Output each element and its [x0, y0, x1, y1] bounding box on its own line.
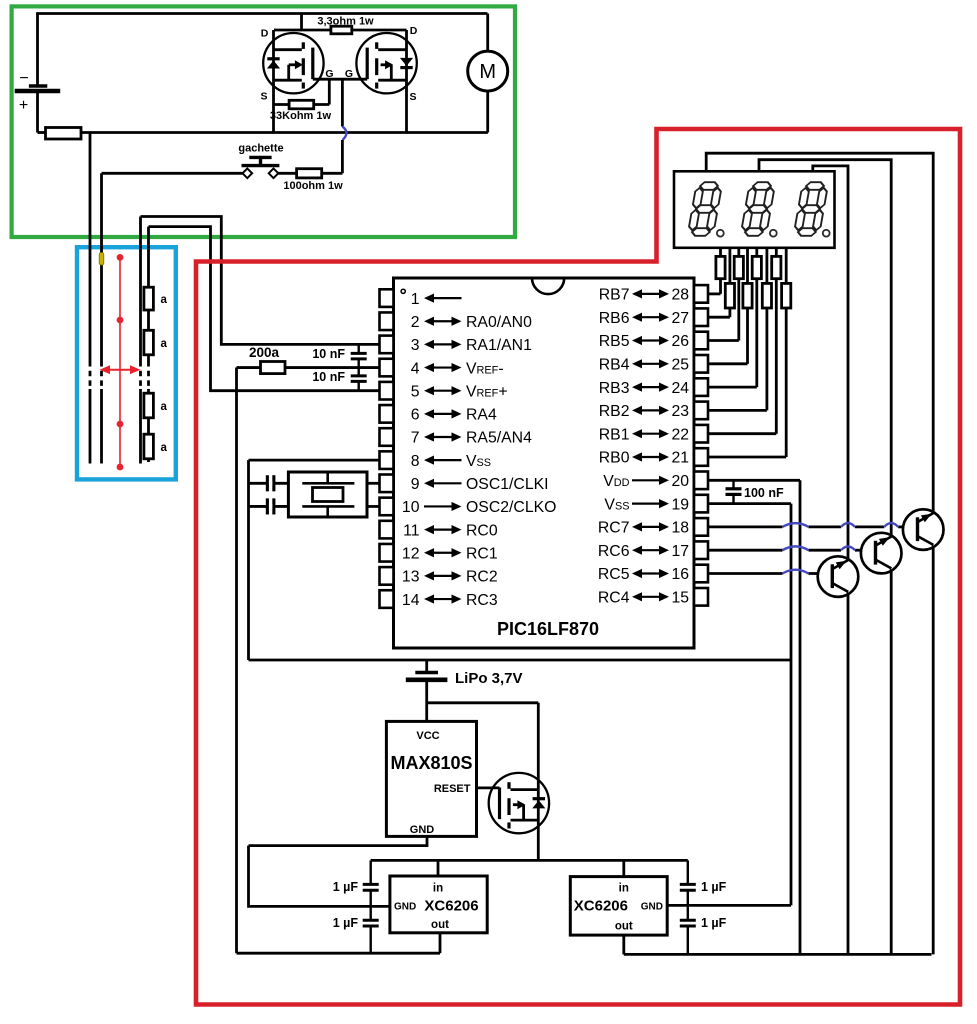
resistor R3 33Kohm body	[289, 100, 314, 109]
wire ground vertical right	[790, 504, 793, 906]
wire pin20 VDD net	[708, 479, 800, 482]
wire battery plus to fuse	[38, 131, 46, 134]
svg-text:6: 6	[411, 407, 420, 424]
sensor chain dashed segment	[147, 361, 150, 389]
resonator X1 top stub	[326, 472, 329, 483]
svg-text:10 nF: 10 nF	[312, 347, 345, 361]
resonator X1 outline	[288, 472, 367, 517]
svg-text:MAX810S: MAX810S	[390, 753, 472, 773]
wire pin19 VSS net	[708, 502, 791, 505]
sensor electrode wire A lower	[89, 389, 92, 464]
svg-text:RA4: RA4	[466, 407, 497, 424]
pin 10 OSC2/CLKO	[380, 498, 394, 516]
display DS1 body	[674, 171, 835, 248]
blue boundary box (optical sensor section)	[77, 247, 176, 479]
svg-text:25: 25	[672, 357, 690, 374]
pin 1 MCLR	[380, 289, 394, 307]
wire T3 emitter down	[932, 546, 935, 955]
svg-text:1: 1	[411, 291, 420, 308]
pin 8 VSS	[380, 451, 394, 469]
yellow tip marker on electrode B	[99, 253, 104, 266]
svg-text:RB6: RB6	[599, 310, 630, 327]
svg-text:100ohm 1w: 100ohm 1w	[283, 180, 343, 192]
pin 25 RB4	[694, 355, 708, 373]
sensor electrode wire B dashed	[100, 361, 103, 389]
pin 13 RC2	[380, 567, 394, 585]
svg-text:9: 9	[411, 476, 420, 493]
resistor Ra2 body	[144, 330, 154, 355]
wire pin4 net	[261, 366, 380, 369]
svg-text:in: in	[619, 883, 629, 895]
transistor Q1 (left power MOSFET)	[263, 33, 323, 93]
svg-text:16: 16	[672, 566, 690, 583]
svg-text:13: 13	[402, 569, 420, 586]
resonator X1 top electrode	[302, 482, 354, 485]
svg-text:18: 18	[672, 520, 690, 537]
pin 20 VDD	[694, 472, 708, 490]
svg-text:D: D	[261, 28, 269, 40]
resistor R11 (segment, pin 23)	[766, 248, 769, 284]
display digit 2	[740, 182, 775, 236]
wire 3.3V long vertical	[235, 368, 238, 954]
switch SW1 actuator top bar	[249, 156, 271, 159]
resistor Ra4 body	[144, 434, 154, 459]
wire 3.7V rail	[371, 859, 688, 862]
motor M1 wire bottom	[486, 91, 489, 132]
svg-text:RC1: RC1	[466, 545, 498, 562]
svg-text:26: 26	[672, 333, 690, 350]
svg-text:22: 22	[672, 426, 690, 443]
svg-text:S: S	[409, 91, 416, 103]
svg-text:1 µF: 1 µF	[333, 880, 359, 894]
wire left regulator in	[437, 860, 440, 876]
resistor R13 (segment, pin 21)	[785, 248, 788, 284]
pin 18 RC7	[694, 518, 708, 536]
svg-text:+: +	[19, 97, 28, 114]
switch SW1 actuator stem	[259, 157, 262, 165]
battery BT2 wire bottom	[425, 681, 428, 721]
svg-text:7: 7	[411, 430, 420, 447]
wire U4 GND to ground vertical	[667, 904, 791, 907]
pin 17 RC6	[694, 541, 708, 559]
wire branch to Q3 drain	[427, 701, 539, 704]
svg-text:200a: 200a	[249, 345, 280, 360]
capacitor C1 (osc pin9)	[266, 475, 269, 491]
svg-text:RA1/AN1: RA1/AN1	[466, 337, 532, 354]
wire Q2 drain-source vertical	[405, 30, 408, 133]
wire Q1 source to R3	[274, 103, 330, 106]
resistor R6 (segment, pin 28)	[719, 248, 722, 257]
svg-text:LiPo 3,7V: LiPo 3,7V	[455, 670, 523, 687]
wire R5 to 3.3V vertical	[237, 366, 261, 369]
switch SW1 contact left	[242, 168, 252, 178]
beam node dot 1	[117, 254, 124, 261]
svg-text:33Kohm 1w: 33Kohm 1w	[270, 110, 332, 122]
wire gate drop lower	[341, 140, 344, 173]
svg-text:gachette: gachette	[238, 143, 283, 155]
wire ground rail	[249, 659, 792, 662]
display digit 2 decimal point	[770, 230, 777, 237]
pin 4 VREF-	[380, 359, 394, 377]
wire U3 out bus	[237, 952, 441, 955]
svg-text:RB7: RB7	[599, 287, 630, 304]
switch SW1 gachette wire left	[102, 172, 243, 175]
transistor T2 (digit driver)	[861, 533, 902, 574]
svg-text:RC7: RC7	[598, 520, 630, 537]
wire pin18 to T3 base	[708, 526, 783, 529]
svg-text:RA5/AN4: RA5/AN4	[466, 430, 532, 447]
svg-text:PIC16LF870: PIC16LF870	[497, 619, 599, 639]
pin 15 RC4	[694, 588, 708, 606]
beam node dot 2	[117, 317, 124, 324]
svg-text:2: 2	[411, 314, 420, 331]
resistor R12 (segment, pin 22)	[775, 248, 778, 257]
green boundary box (motor driver section)	[12, 6, 515, 237]
wire RESET to Q3 gate	[477, 787, 500, 790]
svg-text:1 µF: 1 µF	[333, 916, 359, 930]
svg-text:M: M	[479, 61, 496, 83]
switch SW1 contact right	[269, 168, 279, 178]
svg-text:RC0: RC0	[466, 522, 498, 539]
svg-text:19: 19	[672, 496, 690, 513]
red boundary box (controller section)	[196, 129, 960, 1005]
wire resistor chain segments	[147, 227, 150, 462]
svg-text:RC5: RC5	[598, 566, 630, 583]
svg-text:a: a	[161, 294, 168, 306]
IC U1 PIC16LF870 body	[394, 278, 695, 648]
svg-text:OSC2/CLKO: OSC2/CLKO	[466, 499, 556, 516]
wire display common 3	[813, 166, 848, 560]
svg-text:23: 23	[672, 403, 690, 420]
svg-text:GND: GND	[410, 824, 435, 836]
svg-text:24: 24	[672, 380, 690, 397]
pin 14 RC3	[380, 590, 394, 608]
svg-text:out: out	[615, 921, 633, 933]
capacitor C7 1uF	[687, 860, 689, 883]
resistor R10 (segment, pin 24)	[755, 248, 758, 257]
svg-text:−: −	[19, 70, 28, 87]
pin 16 RC5	[694, 565, 708, 583]
svg-text:GND: GND	[394, 902, 416, 913]
pin 11 RC0	[380, 521, 394, 539]
svg-text:G: G	[345, 68, 353, 80]
display digit 1	[687, 182, 722, 236]
wire U2 GND down	[249, 836, 428, 845]
svg-text:100 nF: 100 nF	[744, 486, 784, 500]
pin 12 RC1	[380, 544, 394, 562]
display digit 3 decimal point	[823, 230, 830, 237]
transistor T3 (digit driver)	[903, 509, 944, 550]
svg-text:RA0/AN0: RA0/AN0	[466, 314, 532, 331]
wire U4 out down	[622, 935, 625, 954]
wire Q3 drain-source vertical	[537, 703, 540, 861]
svg-text:5: 5	[411, 383, 420, 400]
wire display common 1	[706, 153, 933, 513]
wire ground to regulators	[249, 846, 390, 907]
svg-text:VCC: VCC	[416, 730, 439, 742]
switch SW1 actuator bottom bar	[242, 164, 280, 167]
svg-text:S: S	[260, 91, 267, 103]
wire display common 2	[759, 160, 891, 537]
pin 28 RB7	[694, 285, 708, 303]
wire T2 emitter down	[890, 569, 893, 954]
resonator X1 bottom stub	[326, 506, 329, 517]
wire C top run to pin 3	[141, 217, 380, 345]
wire top rail	[36, 12, 487, 15]
motor M1 body	[468, 51, 508, 91]
wire battery minus to top rail	[36, 14, 39, 87]
resistor Ra1 body	[144, 287, 154, 310]
pin 26 RB5	[694, 332, 708, 350]
svg-text:RESET: RESET	[434, 783, 471, 795]
wire battery plus down	[36, 91, 39, 133]
wire switch to R4	[279, 172, 343, 175]
IC U4 XC6206 body	[570, 877, 667, 936]
sensor beam line (red)	[119, 257, 121, 467]
battery BT2 plate long	[406, 677, 448, 682]
capacitor C9 100nF	[732, 480, 734, 488]
resistor R4 100ohm body	[297, 169, 322, 178]
capacitor C2 (osc pin10)	[266, 498, 269, 514]
battery BT2 LiPo wire top	[425, 660, 428, 671]
wire top rail drop to D-wire	[300, 14, 303, 31]
wire VDD vertical	[799, 480, 802, 954]
capacitor C6 1uF	[370, 906, 372, 919]
pin 3 RA1/AN1	[380, 336, 394, 354]
svg-text:RB0: RB0	[599, 450, 630, 467]
display digit 1 decimal point	[717, 230, 724, 237]
pin 27 RB6	[694, 308, 708, 326]
svg-text:D: D	[410, 25, 418, 37]
svg-text:RC6: RC6	[598, 543, 630, 560]
svg-text:21: 21	[672, 450, 690, 467]
sensor resistor chain wire (to pin5)	[149, 227, 380, 391]
resistor R9 (segment, pin 25)	[746, 248, 749, 284]
svg-text:OSC1/CLKI: OSC1/CLKI	[466, 476, 549, 493]
battery BT1 plate minus (short)	[29, 84, 47, 87]
wire T1 emitter down	[847, 593, 850, 955]
svg-text:RB1: RB1	[599, 426, 630, 443]
svg-text:11: 11	[403, 522, 420, 539]
wire Q1 drain-source vertical	[272, 30, 275, 133]
IC U1 notch	[532, 278, 564, 294]
svg-text:RC4: RC4	[598, 590, 630, 607]
capacitor C5 1uF	[370, 860, 372, 883]
beam double arrow (red)	[104, 369, 136, 371]
capacitor C8 1uF	[687, 905, 689, 919]
wire pin17 to T2 base	[708, 549, 783, 552]
svg-text:RB3: RB3	[599, 380, 630, 397]
battery BT1 plate plus (long)	[15, 89, 61, 93]
pin 23 RB2	[694, 402, 708, 420]
wire pin9 to resonator	[249, 482, 289, 485]
capacitor C4 10nF	[351, 374, 367, 377]
resistor R2 (fuse, battery series)	[46, 128, 82, 140]
wire gate bus	[313, 78, 367, 81]
svg-text:3: 3	[411, 337, 420, 354]
svg-text:1 µF: 1 µF	[701, 916, 727, 930]
wire U3 out down	[439, 933, 442, 953]
sensor wire C lower	[139, 389, 142, 464]
wire bottom rail (source bus)	[81, 131, 488, 134]
sensor electrode wire B lower	[100, 389, 103, 464]
svg-text:10: 10	[402, 499, 420, 516]
resonator X1 crystal plate	[313, 488, 344, 502]
transistor Q2 (right power MOSFET)	[356, 33, 416, 93]
pin 5 VREF+	[380, 382, 394, 400]
wire drain bus (between MOSFET drains)	[274, 29, 407, 32]
svg-text:XC6206: XC6206	[424, 898, 478, 915]
wire pin8 VSS to ground vertical	[249, 459, 380, 462]
svg-text:RB5: RB5	[599, 333, 630, 350]
pin 9 OSC1/CLKI	[380, 475, 394, 493]
display digit 3	[793, 182, 828, 236]
svg-text:15: 15	[672, 590, 690, 607]
svg-text:4: 4	[411, 360, 420, 377]
svg-text:12: 12	[402, 545, 420, 562]
sensor wire C dashed	[139, 361, 142, 389]
IC U3 XC6206 body	[390, 876, 487, 933]
svg-text:GND: GND	[641, 902, 663, 913]
transistor Q3 (power switch MOSFET)	[489, 773, 549, 833]
pin 6 RA4	[380, 405, 394, 423]
svg-text:17: 17	[672, 543, 690, 560]
svg-text:a: a	[161, 401, 168, 413]
svg-text:10 nF: 10 nF	[312, 370, 345, 384]
resistor R5 200a body	[261, 362, 286, 374]
svg-text:RC2: RC2	[466, 569, 498, 586]
sensor electrode wire A dashed	[89, 361, 92, 389]
svg-text:3,3ohm 1w: 3,3ohm 1w	[317, 16, 374, 28]
resistor R1 3,3ohm body	[331, 26, 352, 34]
pin 7 RA5/AN4	[380, 428, 394, 446]
svg-text:8: 8	[411, 453, 420, 470]
svg-text:a: a	[161, 442, 168, 454]
svg-text:28: 28	[672, 287, 690, 304]
wire right regulator in	[622, 860, 625, 876]
pin 24 RB3	[694, 378, 708, 396]
svg-text:RB2: RB2	[599, 403, 630, 420]
wire R3 up to gate net	[328, 79, 331, 104]
beam node dot 4	[117, 464, 124, 471]
svg-text:1 µF: 1 µF	[701, 880, 727, 894]
sensor electrode wire A upper	[89, 133, 92, 362]
svg-text:20: 20	[672, 473, 690, 490]
battery BT2 plate short	[415, 671, 438, 674]
motor M1 wire top	[486, 14, 489, 52]
svg-text:in: in	[433, 883, 443, 895]
pin 22 RB1	[694, 425, 708, 443]
svg-text:14: 14	[402, 592, 420, 609]
wire gate drop upper	[341, 79, 344, 126]
IC U2 MAX810S body	[386, 721, 476, 836]
beam node dot 3	[117, 421, 124, 428]
pin 2 RA0/AN0	[380, 312, 394, 330]
resonator X1 bottom electrode	[302, 505, 354, 508]
resistor R7 (segment, pin 27)	[729, 248, 732, 284]
resistor R8 (segment, pin 26)	[737, 248, 740, 257]
wire ground vertical (osc)	[247, 460, 250, 660]
sensor wire C (to pin3) vertical upper	[139, 217, 142, 362]
resistor Ra3 body	[144, 393, 154, 418]
capacitor C3 10nF	[351, 352, 367, 355]
svg-text:RC3: RC3	[466, 592, 498, 609]
svg-text:27: 27	[672, 310, 690, 327]
svg-text:out: out	[431, 919, 449, 931]
pin 19 VSS	[694, 495, 708, 513]
transistor T1 (digit driver)	[818, 556, 859, 597]
svg-text:XC6206: XC6206	[574, 898, 628, 915]
svg-text:RB4: RB4	[599, 357, 630, 374]
pin 21 RB0	[694, 448, 708, 466]
wire U4 out bus (3.3V)	[624, 953, 932, 956]
svg-text:a: a	[161, 338, 168, 350]
wire pin16 to T1 base	[708, 572, 783, 575]
sensor electrode wire B upper	[100, 173, 103, 361]
wire jump (blue) gate over bottom rail	[342, 127, 346, 141]
wire pin10 to resonator	[249, 505, 289, 508]
